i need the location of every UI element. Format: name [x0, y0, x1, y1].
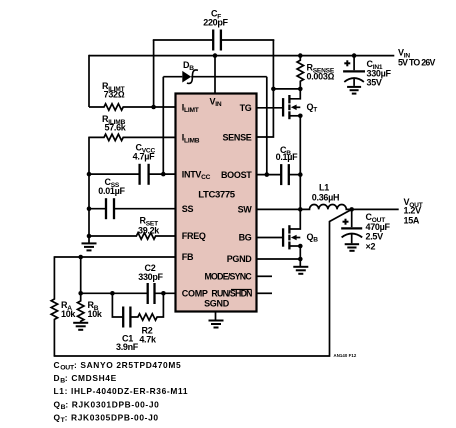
ground RB — [73, 323, 88, 330]
label QT — [307, 102, 318, 114]
label COUT value — [366, 212, 391, 252]
wire INTVCC row right — [149, 173, 176, 175]
pin label FREQ — [182, 231, 206, 241]
svg-text:SW: SW — [238, 205, 253, 215]
wire SW row — [257, 208, 300, 210]
wire sense top link — [273, 88, 300, 90]
label figure number AN140 F12 — [334, 353, 357, 358]
svg-text:4.7k: 4.7k — [139, 335, 157, 345]
node CB right junction — [298, 172, 303, 177]
svg-text:5V TO 26V: 5V TO 26V — [398, 57, 435, 67]
resistor RILIMT — [89, 104, 176, 110]
svg-text:DB: DB — [183, 60, 194, 72]
pin label ILIMB — [182, 133, 200, 145]
net label VOUT — [404, 197, 423, 225]
wire left ground rail — [88, 137, 90, 244]
svg-text:SENSE: SENSE — [222, 132, 251, 142]
pin label VIN top — [210, 96, 222, 108]
svg-text:QT: RJK0305DPB-00-J0: QT: RJK0305DPB-00-J0 — [54, 412, 159, 424]
wire CF row left — [153, 39, 213, 41]
wire MODE/SYNC stub — [257, 275, 272, 277]
capacitor CSS — [106, 198, 114, 219]
label CIN1 value — [367, 59, 392, 87]
svg-text:MODE/SYNC: MODE/SYNC — [204, 272, 252, 282]
node BOOST DB junction — [265, 172, 270, 177]
pin label PGND — [227, 254, 253, 264]
svg-text:15A: 15A — [404, 215, 420, 225]
label R2 value — [139, 326, 157, 345]
svg-text:732Ω: 732Ω — [104, 90, 125, 100]
node SW junction — [298, 207, 303, 212]
label QB — [307, 232, 319, 244]
wire CF row right — [221, 39, 274, 41]
wire BOOST row — [257, 174, 280, 176]
wire VIN rail drop to RLIMT — [88, 55, 90, 107]
node VIN pin junction — [213, 53, 218, 58]
resistor RSET — [89, 233, 176, 239]
svg-text:470µF: 470µF — [366, 222, 391, 232]
node RSENSE top junction — [298, 53, 303, 58]
svg-text:COUT: SANYO 2R5TPD470M5: COUT: SANYO 2R5TPD470M5 — [54, 360, 182, 372]
pin label COMP — [182, 289, 208, 299]
svg-text:4.7µF: 4.7µF — [133, 152, 155, 162]
svg-text:QB: QB — [307, 232, 319, 244]
wire CF right vertical — [272, 40, 274, 89]
svg-text:PGND: PGND — [227, 254, 253, 264]
label plus CIN1 — [344, 60, 350, 66]
net label VIN — [398, 48, 435, 68]
wire CB to SW rail — [289, 174, 300, 176]
wire FB row — [54, 256, 175, 258]
label plus COUT — [343, 219, 349, 225]
wire QT source to SW — [299, 116, 301, 210]
pin label BG — [239, 233, 252, 243]
wire COMP row left — [81, 292, 147, 294]
svg-text:0.01µF: 0.01µF — [98, 186, 125, 196]
resistor RA — [51, 256, 57, 356]
node COMP left junction — [78, 291, 83, 296]
resistor RILIMB — [89, 134, 176, 140]
capacitor C2 — [148, 283, 155, 304]
svg-text:COMP: COMP — [182, 289, 208, 299]
pin label BOOST — [221, 170, 252, 180]
node RSET junction — [87, 234, 92, 239]
wire DB anode to INTVCC — [162, 77, 164, 174]
wire INTVCC row left — [89, 173, 139, 175]
resistor RB — [78, 257, 84, 322]
svg-text:0.1µF: 0.1µF — [276, 152, 298, 162]
capacitor CIN1 — [343, 56, 365, 86]
note L1 part — [54, 386, 189, 396]
svg-text:BG: BG — [239, 233, 252, 243]
pin label SW — [238, 205, 253, 215]
label DB — [183, 60, 194, 72]
svg-text:DB: CMDSH4E: DB: CMDSH4E — [54, 373, 117, 385]
svg-text:1.2V: 1.2V — [404, 206, 422, 216]
svg-text:330pF: 330pF — [138, 272, 163, 282]
wire QB source to PGND — [299, 246, 301, 259]
svg-text:FB: FB — [182, 252, 194, 262]
ground left rail — [82, 243, 97, 250]
ground COUT — [345, 244, 359, 251]
svg-text:TG: TG — [240, 103, 252, 113]
svg-text:L1: IHLP-4040DZ-ER-R36-M11: L1: IHLP-4040DZ-ER-R36-M11 — [54, 386, 189, 396]
svg-text:BOOST: BOOST — [221, 170, 252, 180]
capacitor CB — [281, 164, 289, 185]
wire SS row left — [89, 208, 105, 210]
node CVCC junction — [87, 172, 92, 177]
svg-text:10k: 10k — [88, 309, 103, 319]
wire PGND row — [257, 258, 300, 260]
pin label FB — [182, 252, 194, 262]
capacitor COUT — [341, 209, 362, 243]
svg-text:QT: QT — [307, 102, 318, 114]
pin label RUN/SHDN — [211, 289, 252, 299]
svg-text:SS: SS — [182, 204, 194, 214]
note COUT part — [54, 360, 182, 372]
note QT part — [54, 412, 159, 424]
label RB value — [88, 300, 103, 319]
note DB part — [54, 373, 117, 385]
node DB anode junction — [161, 172, 166, 177]
node ILIMT junction — [151, 105, 156, 110]
wire C1 branch left — [112, 293, 122, 318]
wire CF left vertical — [153, 40, 155, 107]
pin label ILIMT — [182, 102, 199, 114]
node SENSE top junction — [271, 87, 276, 92]
capacitor C1 — [123, 307, 130, 328]
label C2 value — [138, 263, 163, 282]
wire VIN rail (top horizontal) — [89, 55, 394, 57]
wire BG row — [257, 237, 283, 239]
label RILIMT value — [102, 81, 125, 100]
svg-text:×2: ×2 — [366, 242, 376, 252]
svg-text:LTC3775: LTC3775 — [198, 189, 236, 200]
IC U1 LTC3775 body — [176, 94, 257, 312]
node CIN1 junction — [352, 53, 357, 58]
transistor QB — [283, 209, 303, 249]
label RSET value — [138, 216, 160, 236]
diode DB — [163, 70, 266, 83]
pin label SS — [182, 204, 194, 214]
wire VOUT line — [352, 208, 399, 210]
inductor L1 — [300, 204, 351, 209]
ground QB — [293, 259, 308, 274]
node C1 branch junction — [110, 291, 115, 296]
label RILIMB value — [102, 114, 127, 133]
svg-text:AN140 F12: AN140 F12 — [334, 353, 357, 358]
note QB part — [54, 399, 160, 411]
svg-text:0.36µH: 0.36µH — [312, 192, 339, 202]
resistor R2 — [131, 293, 164, 321]
svg-text:FREQ: FREQ — [182, 231, 206, 241]
svg-text:3.9nF: 3.9nF — [116, 342, 139, 352]
label CF value — [203, 9, 228, 28]
capacitor CVCC — [140, 164, 149, 185]
wire DB cathode to BOOST — [266, 77, 268, 175]
wire SS row right — [114, 208, 175, 210]
pin label SENSE — [222, 132, 251, 142]
label CVCC value — [133, 143, 156, 162]
wire RUN/SHDN stub — [257, 292, 272, 294]
node CSS junction — [87, 206, 92, 211]
ground SGND — [209, 321, 224, 328]
capacitor CF — [213, 30, 221, 51]
svg-text:35V: 35V — [367, 77, 382, 87]
svg-text:0.003Ω: 0.003Ω — [307, 72, 335, 82]
svg-text:L1: L1 — [319, 182, 329, 192]
node PGND junction — [298, 257, 303, 262]
svg-text:2.5V: 2.5V — [366, 232, 384, 242]
wire VIN pin — [214, 56, 216, 94]
resistor RSENSE — [297, 56, 303, 89]
pin label SGND — [204, 299, 230, 309]
label CB value — [276, 145, 298, 162]
svg-text:QB: RJK0301DPB-00-J0: QB: RJK0301DPB-00-J0 — [54, 399, 160, 411]
svg-text:SGND: SGND — [204, 299, 230, 309]
node VOUT junction — [349, 207, 354, 212]
svg-text:10k: 10k — [61, 309, 76, 319]
node QT drain junction — [298, 87, 303, 92]
wire VOUT feedback bottom — [54, 209, 352, 356]
node FB junction — [78, 255, 83, 260]
label C1 value — [116, 334, 139, 353]
svg-text:220pF: 220pF — [203, 17, 228, 27]
pin label INTVCC — [182, 169, 211, 181]
pin label TG — [240, 103, 252, 113]
svg-text:39.2k: 39.2k — [138, 225, 160, 235]
label RSENSE value — [307, 63, 335, 82]
svg-text:57.6k: 57.6k — [104, 123, 126, 133]
pin label MODE/SYNC — [204, 272, 252, 282]
node R2 branch junction — [161, 291, 166, 296]
wire TG row — [257, 107, 283, 109]
wire SENSE pin — [257, 89, 273, 137]
wire COMP row right — [155, 292, 176, 294]
label CSS value — [98, 177, 125, 196]
svg-text:RUN/SHDN: RUN/SHDN — [211, 289, 252, 299]
ground CIN1 — [347, 87, 361, 94]
label L1 value — [312, 182, 339, 202]
transistor QT — [283, 89, 303, 119]
wire SGND pin — [215, 312, 217, 321]
label RA value — [61, 300, 76, 319]
